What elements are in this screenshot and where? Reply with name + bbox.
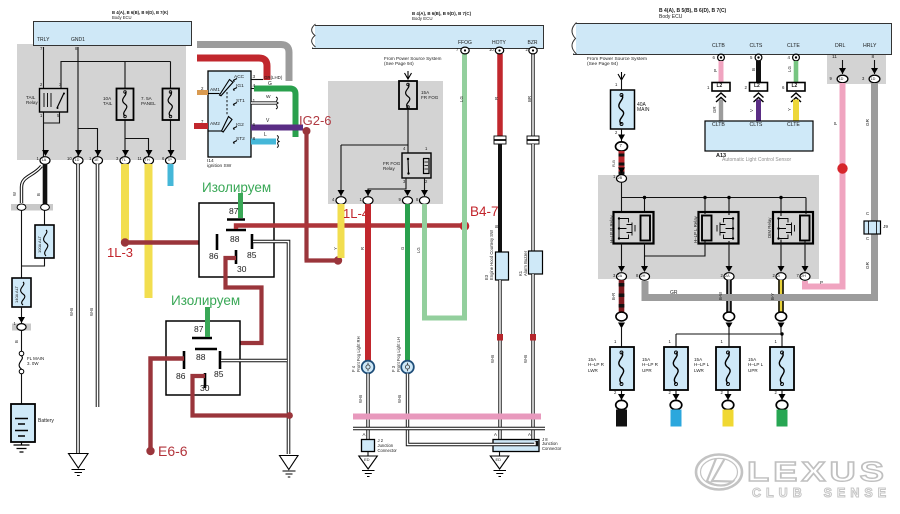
wire cyan TP stub <box>168 164 174 186</box>
junction connector J8 box <box>493 440 539 452</box>
label fog power source <box>384 56 441 67</box>
relay R2 contact bars <box>192 337 212 340</box>
oval 1 2B <box>617 175 627 183</box>
relay R1 added box <box>199 203 274 277</box>
label fog oval pins <box>332 198 334 203</box>
wire violet IG2 <box>251 125 303 131</box>
relay connector oval row <box>617 273 811 281</box>
wire stub black <box>616 410 627 427</box>
label 40A MAIN <box>637 103 650 115</box>
wire W-B ground F4 to J2 <box>366 374 369 441</box>
break notch header middle <box>309 24 315 48</box>
wire to 100A fuse <box>22 211 45 278</box>
wire TAIL relay pin5 elbow <box>44 112 60 123</box>
label J8 <box>494 432 497 437</box>
label TRLY GND1 <box>37 38 49 44</box>
arrow from power source fog <box>405 71 412 79</box>
wire pink P DRL loop <box>805 83 843 287</box>
label A13 <box>712 123 725 129</box>
wire AM2 stub <box>194 123 208 129</box>
fuse 100A ALT <box>35 225 54 258</box>
label FL MAIN <box>27 356 44 366</box>
relay R1 contact bars <box>227 218 245 221</box>
break notch header right <box>570 22 576 54</box>
wire ground double line from R2 85 <box>221 359 287 363</box>
wire ground double line from R1 85 <box>253 242 289 455</box>
label mid header terminals <box>458 41 472 47</box>
node ground tap blob <box>286 412 293 419</box>
fuse 10A TAIL <box>117 89 134 121</box>
label relay R1 pins <box>229 207 238 217</box>
relay H-LP L <box>699 212 739 244</box>
fuse 15A FR FOG <box>399 81 417 109</box>
label wire colors bottom right <box>612 293 617 300</box>
wire GND1 8 down with branch <box>78 47 98 157</box>
label 10A TAIL <box>103 96 112 107</box>
label 1L-3 <box>107 246 133 261</box>
label relay oval pins <box>613 274 615 279</box>
arrows above fog oval row <box>338 190 429 196</box>
wire fuse to ring connector <box>621 129 623 142</box>
label right header terminals <box>712 44 725 50</box>
wire 10A TAIL down with branch <box>125 120 149 157</box>
label main power source <box>587 57 647 68</box>
label fog wire colors <box>334 247 339 250</box>
wire W-B ground F3 to J8 <box>408 374 537 445</box>
battery <box>11 404 35 442</box>
label K1 <box>519 271 524 276</box>
connector arrows above tail oval row <box>42 150 175 156</box>
node 1L-3 dot <box>121 238 129 246</box>
fog light F4 <box>362 361 375 374</box>
label 140A ALT <box>15 286 20 303</box>
label 15A FR FOG <box>421 90 438 101</box>
wire yellow TL <box>121 164 129 243</box>
wire green stub insulate R2 87 <box>205 307 210 337</box>
wire black double bottom horizontal <box>353 427 545 430</box>
wire BZR white from header <box>531 54 534 136</box>
label tail oval pins <box>37 157 39 162</box>
wire B-R striped <box>619 280 625 312</box>
label insulate 2 <box>171 293 240 309</box>
node red splice dot on P <box>837 163 847 173</box>
wire white ST1 with break <box>251 101 276 104</box>
connector L2 pin6 <box>787 83 805 92</box>
label W-B bottom wires <box>359 395 364 403</box>
label headlamp fuses <box>588 357 604 373</box>
wire to battery <box>21 374 23 404</box>
wire added maroon R1 88 to B4-7 <box>236 226 463 230</box>
arrow from power source main <box>618 72 625 80</box>
connector pair on BZR wire <box>527 136 539 140</box>
tail connector oval row <box>40 157 176 165</box>
wire pink bottom horizontal <box>353 414 541 420</box>
buzzer K1 <box>529 251 543 274</box>
wire to K1 <box>531 144 534 251</box>
wire yellow TH <box>145 164 153 298</box>
label TAIL relay <box>26 95 38 106</box>
wire violet to A13 CLTS <box>756 100 761 122</box>
label header mid title <box>412 11 471 16</box>
logo CLUB SENSE <box>752 486 891 500</box>
ring connector B-R <box>616 312 627 321</box>
wire gray GR HRLY loop <box>645 83 875 298</box>
wire green stub insulate R1 87 <box>238 193 243 218</box>
gray panel headlamp relays <box>598 175 819 279</box>
wire added maroon IG2-6 down to fog yellow <box>305 131 336 261</box>
wire bus upper filaments <box>676 334 782 347</box>
gray panel tail circuit <box>17 44 186 160</box>
fuse 15A H-LP R UPR <box>664 347 688 390</box>
wire green CLTE <box>794 61 799 83</box>
ground triangle ED J8 <box>499 452 501 457</box>
wire green IG1 <box>251 88 256 90</box>
node B4-7 dot <box>460 221 470 231</box>
label header left title <box>112 11 168 16</box>
label 1L-4 <box>343 207 369 222</box>
ring connector B-Y <box>775 312 786 321</box>
gray panel DRL/HRLY <box>827 53 886 84</box>
oval 3 1D <box>869 75 880 83</box>
fuse 140A ALT <box>12 278 31 307</box>
fusible link FL MAIN 3.0W <box>19 351 24 356</box>
wire fuse to EA connector <box>21 307 23 323</box>
wire yellow to A13 CLTE <box>793 100 799 122</box>
label mid wire colors <box>459 96 464 102</box>
fuse 40A MAIN <box>621 79 623 90</box>
fog connector oval row <box>336 197 430 205</box>
relay H-LP R <box>614 212 654 244</box>
wire red fog feed to F4 <box>365 204 371 361</box>
wire HOTY red from header <box>497 54 503 136</box>
label fog lights <box>352 366 357 372</box>
wire fuse to FR FOG relay <box>341 109 408 196</box>
wire W-B 1E <box>96 164 100 407</box>
gray panel fog relay <box>328 81 443 204</box>
arrows above relay oval row <box>618 266 809 272</box>
label insulate 1 <box>202 180 271 196</box>
label FR FOG relay <box>383 161 400 172</box>
label ignition switch <box>201 86 203 91</box>
light control sensor A13 box <box>705 121 813 151</box>
wire stub blue <box>671 410 682 427</box>
label CLT wires <box>713 69 718 72</box>
label IG2-6 <box>299 114 332 129</box>
wire W curved from 1A <box>22 166 42 203</box>
ground triangle ED J2 <box>367 452 369 457</box>
wire added maroon 1L-3 to relay 88 <box>125 240 216 244</box>
connector L2 pin2 <box>750 83 768 92</box>
wire pale green FFOG loop <box>425 54 465 318</box>
wire FR FOG relay pin3 to 1B <box>368 178 425 196</box>
connector band IJ <box>11 204 53 211</box>
wire DRL pin11 <box>842 60 844 74</box>
wire B black from 1A <box>43 164 48 204</box>
label header right title <box>659 9 726 15</box>
wire W-B from E3 to ground bus <box>498 280 501 440</box>
ring connector 7 <box>616 142 628 151</box>
Body ECU header right <box>573 23 892 55</box>
wire AM1 stub <box>197 90 208 95</box>
label W B wires <box>13 192 18 196</box>
ground triangle relay circuit <box>280 456 299 470</box>
ring connector B-W <box>723 312 734 321</box>
label E3 <box>485 275 490 280</box>
wire B-Y <box>778 280 784 312</box>
Body ECU header middle <box>312 25 544 49</box>
connector L2 pin1 <box>712 83 730 92</box>
switch E3 engine hood courtesy <box>496 252 509 280</box>
wire yellow fog coil <box>338 204 345 258</box>
connector pair on HOTY wire <box>494 136 506 140</box>
relay R2 added box <box>166 321 240 395</box>
FR FOG relay box <box>402 153 431 178</box>
wire gray to A13 CLTB <box>719 100 723 122</box>
wire to FL MAIN <box>21 331 23 352</box>
node E6-6 dot <box>146 447 154 455</box>
junction connector J2 box <box>362 440 375 452</box>
wire TRLY 7 to TAIL relay <box>43 47 45 157</box>
node tap on fog yellow wire <box>334 256 342 264</box>
label 7.5A PANEL <box>141 96 156 107</box>
mid header terminal ovals FFOG HOTY BZR <box>461 47 469 54</box>
label J2 <box>363 432 366 437</box>
label W-B left grounds <box>70 308 75 316</box>
wire bus headlamp relays <box>622 182 807 216</box>
wire cyan ST2 with break <box>251 139 276 145</box>
label J9 <box>866 211 869 216</box>
Body ECU header left <box>33 21 192 46</box>
wire gray thick top GR(LHD) <box>197 45 289 82</box>
node IG2-6 tap dot <box>303 127 311 135</box>
label relay R2 pins <box>194 325 203 335</box>
fuse 7.5A PANEL <box>163 89 180 121</box>
wire red thick top to ACC <box>197 58 267 80</box>
wire added maroon R1 30 to relay R2 <box>203 258 262 348</box>
wire green fog to F3 <box>405 204 410 361</box>
fog light F3 <box>401 361 414 374</box>
fuse 15A H-LP R LWR <box>610 347 634 390</box>
wire B-W <box>726 280 732 312</box>
wire W-B 1D long ground <box>76 164 80 453</box>
wire bus TAIL relay pin3 to fuses <box>61 62 171 89</box>
junction connector J9 box <box>864 221 881 234</box>
wire added maroon R2 88 to E6-6 <box>151 359 185 450</box>
fuse output rings and stubs <box>622 390 783 400</box>
CLTE terminal circle <box>793 54 800 61</box>
wire black to E3 <box>498 144 502 252</box>
label headlamp relays <box>609 215 614 243</box>
oval 9 1D <box>837 75 848 83</box>
wires relays to connector row <box>622 240 806 267</box>
label battery <box>38 419 54 425</box>
wire stub green <box>777 410 788 427</box>
wire pink CLTB <box>719 61 724 83</box>
fuse 15A H-LP L UPR <box>770 347 794 390</box>
label E6-6 <box>158 443 188 459</box>
label 100A ALT <box>38 236 43 253</box>
wire W-B from K1 to J8 <box>531 274 534 440</box>
wire 7.5A PANEL down <box>170 120 172 157</box>
ignition switch contacts <box>220 80 234 96</box>
ground under battery <box>14 442 30 452</box>
relay DIM <box>773 212 813 244</box>
CLTB terminal circle <box>718 54 725 61</box>
wire striped R-B to 2B <box>619 151 625 174</box>
logo LEXUS wordmark <box>747 456 888 488</box>
wire stub yellow <box>723 410 734 427</box>
TAIL relay box <box>40 89 68 113</box>
wire HRLY pin8 <box>874 60 876 74</box>
wire added maroon R2 30 to ground tap <box>193 376 289 416</box>
CLTS terminal circle <box>755 54 762 61</box>
ground triangle 1D <box>69 454 89 469</box>
ignition switch I14 box <box>208 71 251 157</box>
wire ACC link <box>251 79 263 81</box>
fuse 15A H-LP L LWR <box>716 347 740 390</box>
LEXUS logo ellipse <box>696 455 742 490</box>
label B4-7 <box>470 204 499 220</box>
wire black CLTS <box>756 61 761 83</box>
